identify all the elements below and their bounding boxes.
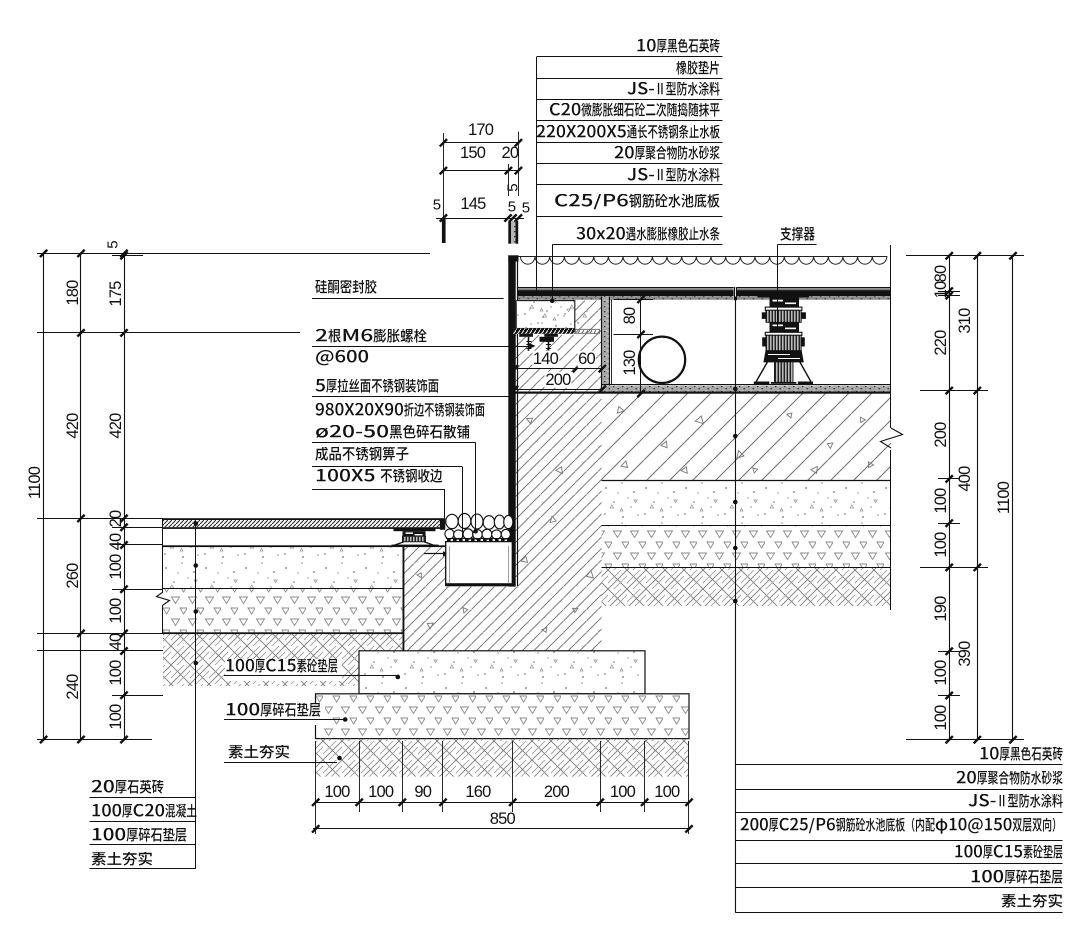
left chain tick slashes [40,250,47,257]
dim 40 [108,634,125,651]
dim 145 [460,196,485,213]
gravel bottom bold line (left) [163,632,404,634]
dim 420 [108,413,125,438]
concrete mass hatch: pool edge beam under pavement edge [403,546,447,651]
callout: silicone sealant [315,280,381,302]
rammed soil under stepped foundation [316,739,690,777]
black gravel fill in drain trench (circles) [446,514,458,528]
dim 420 [65,413,82,438]
dim 1100 [996,482,1013,514]
dim 140 [532,351,559,368]
callout: 5 thick brushed stainless facing [315,379,443,401]
dim 100 [108,599,125,624]
slab bottom line [602,480,892,482]
callout: 200 thick C25/P6 pool slab w/ rebar [740,818,1066,840]
finished stainless grating (dash row) [446,538,512,540]
water surface scallop line in pool [520,256,886,264]
callout: 10 thick black quartz brick [636,39,724,61]
concrete mass hatch: under drain channel box [446,586,513,651]
leader from top-right callout stack into pool floor [536,57,538,293]
100X5 stainless edge trim at trench [440,518,445,530]
left dim tick lines [37,253,430,255]
callout: rammed soil 3 [1001,894,1067,916]
pavement left cut edge with break symbol [162,518,164,592]
callout: rammed soil 2 [91,852,157,874]
callout: 980X20X90 folded stainless facing [315,403,489,425]
dim 100 [933,488,950,513]
pavement quartz tile strip 20 thick (fine hatch) [163,518,440,520]
dim 40 [108,533,125,550]
M6 expansion bolt rods [528,337,530,351]
black gravel label underline + drop [312,442,476,444]
break symbol on right cut line [881,428,903,448]
dim 200 [544,371,571,388]
drain pipe circle in pool void [639,337,685,383]
stepped gravel block (triangles) [316,694,690,739]
220X200X5 stainless steel waterstop plate [513,329,575,334]
dim 200 [933,422,950,447]
dim 240 [65,674,82,699]
callout: 100 thick C15 blinding [225,659,342,681]
edge beam left boundary bold line [403,546,405,651]
pool raised floor: quartz brick + bedding band [517,287,891,289]
dim 130 [621,350,638,375]
tile butt joint above support pedestal [734,287,737,300]
left pavement C20 concrete layer (dotted) [163,547,404,589]
mortar screed on slab top (void floor) [602,384,891,386]
M6 bolt label underline + arrow [312,346,528,348]
callout: C20 micro-expansion fine concrete [549,103,724,125]
callout: rammed soil [228,745,294,767]
trench recess wall (mortar strip) [601,297,609,392]
callout: 20 thick polymer mortar 2 [956,771,1067,793]
dim 5 [522,200,530,215]
concrete mass hatch: C25/P6 pool slab 200 thick [602,394,892,481]
panel extended above (break) - left trim thick line [442,219,446,243]
dim 5 [506,184,521,192]
gravel bedding label underline + dot [224,719,344,721]
top-right callout stack underlines [537,56,723,58]
dim 140/60 line [515,368,603,370]
callout: 20-50 black gravel loose laid [315,425,474,447]
callout: 100 thick C20 concrete [91,804,201,826]
left pavement gravel layer (triangles) [163,589,404,633]
right cut line of drawing [890,245,892,428]
right chain tick slashes [946,252,953,259]
dim 310 [957,309,974,334]
980X20X90 folded stainless decorative panel (dark bar) [508,261,515,587]
dim 100 [108,705,125,730]
panel extended above (break) - hatched column [508,221,511,244]
left pavement rammed soil (cross hatch) [163,634,404,686]
dim 190 [933,597,950,622]
dim 850 [490,810,515,827]
stainless grating label underline + drop [312,466,462,468]
30x20 waterstop leader line and drop [552,244,722,246]
callout: 2 M6 expansion bolts [315,329,431,351]
scattered aggregate triangles in concrete mass [527,416,535,424]
C15 band bottom line (right) [602,525,892,527]
drain channel box [446,542,513,585]
stainless steel cap at wall top [508,255,518,261]
support pedestal label leader [777,244,816,246]
dim 90 [414,783,431,800]
callout: 20 thick polymer waterproof mortar [614,146,724,168]
callout: 10 thick black quartz brick 2 [979,747,1067,769]
stepped C15 blinding block (dotted) [359,651,645,694]
channel fixing screw leader [424,553,443,555]
callout: 100 thick gravel bedding 3 [970,870,1067,892]
C20 / gravel boundary line [163,588,404,590]
callout: rubber gasket [676,61,724,83]
callout: JS-II waterproof coating [627,82,724,104]
dim 100 [610,783,635,800]
bottom-right callout underlines [735,764,1062,766]
dim 220 [933,331,950,356]
dim 100 [108,661,125,686]
dim 390 [957,641,974,666]
dim 20 [502,145,519,162]
dim 145/5/5/5 line [436,218,524,220]
right dim tick lines [906,255,1024,257]
callout: finished stainless grating [315,447,413,469]
dim 5 [433,197,441,212]
callout: 20 thick quartz brick [91,780,168,802]
callout: 100 thick gravel bedding [225,703,325,725]
bottom dim 850 line [313,828,691,830]
C20 micro-expansion concrete secondary cast block [516,301,575,329]
C20 slab top bold line under pedestals [163,545,446,547]
callout: JS-II waterproof coating 2 [627,168,724,190]
concrete mass hatch: strip under pool floor band right of C20 block [575,301,602,336]
dim 80 [933,265,950,282]
callout: 30x20 hydrophilic rubber waterstop [576,227,724,249]
bottom-right callout stack leader vertical with dots [735,297,737,913]
concrete mass hatch: pool wall core / trench surround [513,335,602,651]
callout: 100 thick C15 blinding 2 [954,845,1067,867]
dim 100 [368,783,393,800]
dim 1100 [27,467,44,499]
M6 expansion bolt head / nut [519,334,533,337]
dim 100 [933,533,950,558]
dim 160 [465,783,490,800]
dim 170 [468,122,493,139]
dim 60 [577,351,596,368]
dim 80/130 tick lines [614,299,654,301]
bottom-left callout underlines [90,797,196,799]
dim 80 [621,308,638,325]
dim 10 [933,281,950,298]
callout: JS-II coating 3 [968,794,1067,816]
pavement support pedestal [394,528,436,531]
dim 200 line (trench width) [515,389,603,391]
dim 200 [544,783,569,800]
bottom dim extension verticals [315,741,317,812]
dim 100 [654,783,679,800]
silicone sealant label underline [312,298,504,300]
rammed soil band under slab (cross hatch) [602,568,892,607]
rammed soil label underline + dot [224,762,337,764]
dim 150/20 line [443,170,518,172]
gravel bedding band under slab (triangles) [602,526,892,568]
dim 150 [460,145,485,162]
dim 5 [106,241,121,249]
bottom-left callout stack leader vertical with dots [195,519,197,869]
C15 blinding layer band under slab (dotted) [602,481,892,526]
dim 100 [108,555,125,580]
dim 100 [933,661,950,686]
dim 20 [108,511,125,528]
dim 180 [65,281,82,306]
bottom dim chain line 100/100/90/160/200/100/100 [316,802,689,804]
dim 100 [933,705,950,730]
callout: 100 thick gravel bedding 2 [91,828,191,850]
callout: 100X5 stainless edge trim [315,469,446,491]
gravel band bottom line (right) [602,567,892,569]
dim 260 [65,563,82,588]
callout: support pedestal [780,227,819,249]
structural slab top bold line [512,392,891,394]
100X5 trim label underline + drop [312,489,445,491]
dim 170 line [443,142,518,144]
pedestal base legs and striped stem [775,362,794,382]
C15 blinding label underline + dot [224,675,397,677]
right dim chain verticals [949,256,951,740]
extension lines for top dims [443,133,445,218]
dim 100 [324,783,349,800]
dim 400 [957,466,974,491]
callout: 220X200X5 stainless waterstop plate [536,125,724,147]
adjustable support pedestal under pool floor [758,295,809,298]
dim 175 [108,282,125,307]
left dim chain verticals [43,253,45,739]
dim 5 [508,199,516,214]
callout: C25/P6 reinforced pool slab [554,194,724,216]
brushed stainless facing label underline [312,396,513,398]
callout: at 600 spacing [315,350,373,372]
